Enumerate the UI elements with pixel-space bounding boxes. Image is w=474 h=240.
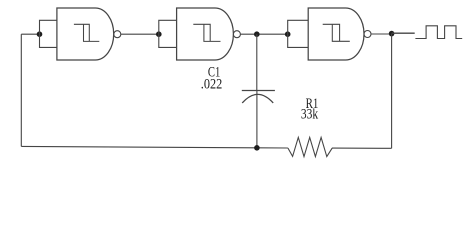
inverter bubble gate 1 [114,31,121,38]
Schmitt NAND gate 1 body [57,8,114,60]
inverter bubble gate 2 [233,31,240,38]
capacitor C1 top plate [242,90,275,92]
wire gate 1 input tie loop [40,20,57,47]
inverter bubble gate 3 [364,31,371,38]
output square wave symbol [415,26,462,39]
Schmitt trigger hysteresis symbol gate 3 [323,24,350,41]
capacitor C1 curved bottom plate [242,94,273,103]
Schmitt trigger hysteresis symbol gate 2 [193,24,220,41]
wire capacitor top lead [256,34,258,90]
node gate 3 input junction [285,31,291,37]
wire output node to waveform [392,32,415,34]
resistor R1 zigzag [288,137,332,156]
wire feedback left vertical [20,34,22,146]
node capacitor tap junction [254,31,260,37]
node gate 2 input junction [156,31,162,37]
svg-text:.022: .022 [201,77,223,93]
Schmitt NAND gate 2 body [177,8,234,60]
wire gate 2 input tie loop [159,20,177,47]
node output junction [389,31,395,37]
node gate 1 input junction [37,31,43,37]
Schmitt trigger hysteresis symbol gate 1 [74,24,99,41]
wire bottom rail [21,146,391,148]
wire gate 3 input tie loop [288,20,309,47]
wire gate 3 output to output node [371,33,392,35]
wire gate 1 output to gate 2 input [121,33,159,35]
wire capacitor bottom lead [256,91,258,148]
wire feedback horizontal into gate 1 input [21,33,39,35]
svg-text:33k: 33k [301,106,319,122]
wire output node down to bottom rail [391,34,393,149]
node capacitor bottom rail junction [254,145,260,151]
wire gate 2 output to gate 3 input [240,33,287,35]
Schmitt NAND gate 3 body [308,8,364,60]
